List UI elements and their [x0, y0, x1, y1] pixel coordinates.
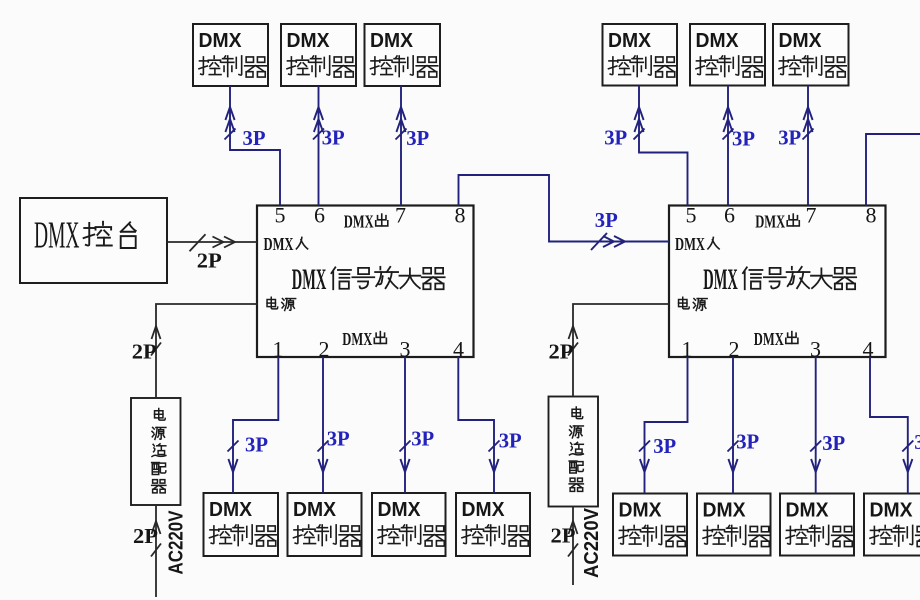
wire W8L: left amp pin8 to right amp DMX input (3P link) — [459, 175, 670, 250]
U16: DMX controller box — [780, 494, 854, 556]
svg-text:DMX: DMX — [378, 499, 422, 521]
svg-text:DMX: DMX — [870, 500, 914, 522]
svg-text:DMX: DMX — [755, 212, 785, 232]
svg-text:3P: 3P — [406, 126, 429, 150]
svg-text:3P: 3P — [822, 431, 845, 455]
wire WM2: AC220V mains into power adapter (2P) — [551, 507, 579, 586]
svg-text:3P: 3P — [653, 434, 676, 458]
U2: DMX controller box — [193, 24, 268, 86]
svg-text:3P: 3P — [595, 208, 618, 232]
svg-text:DMX: DMX — [293, 499, 337, 521]
wire W8R: right amp pin8 up and to right edge — [866, 134, 920, 206]
wire W3L: amplifier output to bottom DMX controller — [400, 357, 435, 493]
svg-text:DMX: DMX — [370, 30, 414, 52]
label DMX信号放大器 (title) of U6 — [703, 264, 856, 296]
svg-text:5: 5 — [686, 203, 697, 228]
svg-text:3P: 3P — [245, 433, 268, 457]
wire WP2: power adapter to amplifier 电源 input (2P) — [549, 304, 670, 397]
svg-text:2: 2 — [319, 337, 330, 362]
U10: DMX controller box — [204, 493, 279, 556]
svg-text:7: 7 — [806, 203, 817, 228]
U13: DMX controller box — [456, 493, 530, 556]
wire W7R: amplifier output to top DMX controller — [778, 86, 813, 206]
U1: DMX console (DMX控台) box — [20, 198, 167, 283]
svg-text:3P: 3P — [604, 126, 627, 150]
svg-text:3P: 3P — [732, 127, 755, 151]
wire W6R: amplifier output to top DMX controller — [723, 86, 756, 206]
svg-text:2P: 2P — [549, 340, 574, 364]
label 电源 of U5 — [267, 297, 296, 310]
svg-text:DMX: DMX — [292, 264, 327, 296]
wire WP1: power adapter to amplifier 电源 input (2P) — [132, 304, 257, 398]
U14: DMX controller box — [613, 494, 687, 556]
svg-text:6: 6 — [724, 203, 735, 228]
svg-text:3P: 3P — [778, 126, 801, 150]
U5: DMX signal amplifier box — [257, 203, 474, 362]
svg-text:DMX: DMX — [779, 30, 823, 52]
svg-text:8: 8 — [866, 203, 877, 228]
wire W5R: amplifier output to top DMX controller — [604, 86, 687, 206]
U6: DMX signal amplifier box — [669, 203, 886, 362]
wire W1R: amplifier output to bottom DMX controller — [639, 357, 688, 494]
U11: DMX controller box — [288, 493, 362, 556]
wire WM1: AC220V mains into power adapter (2P) — [133, 505, 161, 597]
label DMX出 (bottom) of U5 — [342, 329, 386, 349]
wire W2L: amplifier output to bottom DMX controller — [318, 357, 350, 493]
svg-text:DMX: DMX — [703, 264, 738, 296]
svg-text:DMX: DMX — [199, 30, 243, 52]
svg-text:DMX: DMX — [342, 329, 372, 349]
label 电源 of U6 — [679, 297, 708, 310]
U3: DMX controller box — [281, 24, 356, 86]
svg-text:3P: 3P — [322, 126, 345, 150]
label DMX出 (top) of U5 — [344, 212, 388, 232]
PS1: power adapter (电源适配器) box — [131, 398, 181, 505]
U4: DMX controller box — [365, 24, 441, 86]
wire W4R: amplifier output to bottom DMX controller — [870, 357, 920, 494]
svg-text:8: 8 — [455, 203, 466, 228]
wire W4L: amplifier output to bottom DMX controller — [458, 357, 522, 493]
svg-text:DMX: DMX — [344, 212, 374, 232]
svg-text:5: 5 — [275, 203, 286, 228]
svg-text:DMX: DMX — [703, 500, 747, 522]
svg-text:3P: 3P — [736, 430, 759, 454]
label DMX入 of U5 — [264, 234, 308, 254]
svg-text:2P: 2P — [133, 524, 158, 548]
wire W6L: amplifier output to top DMX controller — [313, 86, 345, 206]
svg-text:DMX: DMX — [786, 500, 830, 522]
U17: DMX controller box — [864, 494, 920, 556]
svg-text:DMX: DMX — [619, 500, 663, 522]
svg-text:2P: 2P — [132, 340, 157, 364]
svg-text:3P: 3P — [499, 429, 522, 453]
svg-text:DMX: DMX — [696, 30, 740, 52]
U9: DMX controller box — [773, 24, 849, 86]
svg-text:3P: 3P — [411, 427, 434, 451]
label DMX入 of U6 — [675, 234, 719, 254]
U12: DMX controller box — [372, 493, 446, 556]
label AC220V (right mains) — [581, 507, 603, 578]
svg-text:6: 6 — [314, 203, 325, 228]
svg-text:2: 2 — [729, 337, 740, 362]
svg-text:DMX: DMX — [34, 215, 80, 257]
label DMX出 (bottom) of U6 — [754, 329, 798, 349]
svg-text:2P: 2P — [197, 249, 222, 273]
wire W5L: amplifier output to top DMX controller — [225, 86, 281, 206]
svg-text:DMX: DMX — [608, 30, 652, 52]
wire W1L: amplifier output to bottom DMX controller — [228, 357, 279, 493]
U7: DMX controller box — [603, 24, 678, 86]
label DMX信号放大器 (title) of U5 — [292, 264, 445, 296]
svg-text:3P: 3P — [243, 126, 266, 150]
svg-text:4: 4 — [863, 337, 874, 362]
svg-text:DMX: DMX — [754, 329, 784, 349]
wire W7L: amplifier output to top DMX controller — [396, 86, 430, 206]
label DMX出 (top) of U6 — [755, 212, 799, 232]
svg-text:DMX: DMX — [287, 30, 331, 52]
svg-text:2P: 2P — [551, 524, 576, 548]
wire W2R: amplifier output to bottom DMX controller — [728, 357, 760, 494]
svg-text:DMX: DMX — [264, 234, 294, 254]
svg-text:AC220V: AC220V — [581, 507, 603, 578]
svg-text:3P: 3P — [327, 427, 350, 451]
wire W2P: DMX console to left amp DMX input (2P) — [167, 234, 257, 272]
svg-text:3P: 3P — [914, 430, 920, 454]
svg-text:DMX: DMX — [209, 499, 253, 521]
wire W3R: amplifier output to bottom DMX controller — [810, 357, 845, 494]
U15: DMX controller box — [697, 494, 771, 556]
U8: DMX controller box — [690, 24, 765, 86]
svg-text:DMX: DMX — [462, 499, 506, 521]
svg-text:DMX: DMX — [675, 234, 705, 254]
PS2: power adapter (电源适配器) box — [549, 397, 599, 507]
svg-text:AC220V: AC220V — [166, 510, 188, 575]
svg-text:7: 7 — [395, 203, 406, 228]
label AC220V (left mains) — [166, 510, 188, 575]
